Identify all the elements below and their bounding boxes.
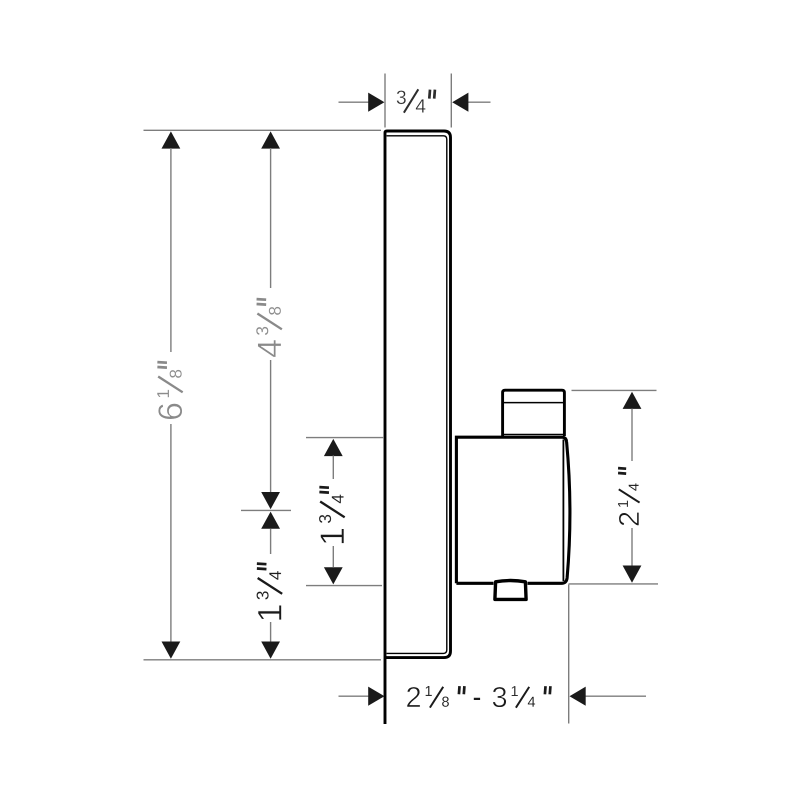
arrowhead down	[261, 492, 280, 509]
dimension line segment	[332, 456, 334, 480]
arrowhead up	[261, 512, 280, 529]
handle body (main block)	[456, 437, 570, 583]
handle front face edge	[562, 440, 564, 582]
dimension line segment	[270, 360, 272, 495]
dimension line segment	[332, 546, 334, 567]
dimension line segment	[170, 424, 172, 642]
arrowhead down	[623, 566, 642, 583]
dimension line segment	[339, 695, 370, 697]
stop block bottom line	[504, 433, 563, 435]
arrowhead down	[324, 567, 343, 584]
arrowhead left	[452, 93, 468, 112]
arrowhead left	[570, 687, 586, 706]
label 4 3/8"	[256, 299, 282, 357]
label 1 3/4" (right)	[319, 487, 345, 543]
dimension line segment	[241, 509, 291, 511]
label 1 3/4" (left)	[257, 564, 283, 620]
arrowhead up	[261, 131, 280, 148]
dimension line segment	[572, 389, 657, 391]
grip tab at handle bottom	[495, 581, 526, 600]
label 6 1/8"	[157, 362, 183, 419]
arrowhead down	[162, 642, 181, 659]
dimension line segment	[270, 529, 272, 555]
stop block on handle (upper small block)	[503, 390, 565, 436]
arrowhead right	[368, 93, 384, 112]
extension line below plate (black, left)	[384, 658, 386, 724]
dimension line segment	[468, 101, 491, 103]
dimension line segment	[144, 129, 382, 131]
escutcheon plate inner edge line	[387, 136, 447, 654]
escutcheon plate (side view outer outline)	[385, 131, 451, 724]
dimension line segment	[270, 148, 272, 288]
dimension line segment	[306, 437, 384, 439]
label 2 1/8" - 3 1/4"	[407, 686, 550, 708]
arrowhead right	[368, 687, 384, 706]
arrowhead up	[623, 392, 642, 409]
dimension line segment	[339, 101, 370, 103]
dimension line segment	[270, 622, 272, 642]
dimension line segment	[384, 74, 386, 128]
arrowhead up	[162, 131, 181, 148]
dimension line segment	[585, 695, 646, 697]
label 2 1/4"	[618, 468, 640, 525]
dimension line segment	[569, 583, 659, 585]
arrowhead down	[261, 642, 280, 659]
dimension line segment	[631, 528, 633, 566]
stop block inner line	[504, 402, 563, 404]
dimension line segment	[170, 148, 172, 352]
dimension line segment	[306, 585, 382, 587]
dimension line segment	[631, 409, 633, 462]
dimension line segment	[144, 659, 382, 661]
dimension line segment	[568, 585, 570, 724]
arrowhead up	[324, 439, 343, 456]
dimension line segment	[450, 74, 452, 128]
label 3/4"	[397, 89, 435, 112]
